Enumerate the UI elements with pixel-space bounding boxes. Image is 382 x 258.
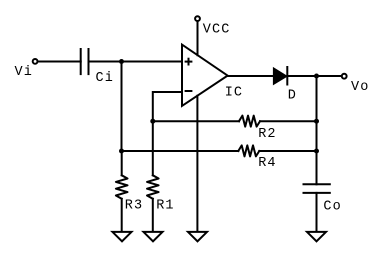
ground under R3 — [113, 232, 132, 241]
resistor R2 — [153, 116, 317, 127]
svg-text:Vi: Vi — [15, 65, 33, 80]
wire output node down right bus — [316, 76, 318, 184]
wire Vi to Ci — [38, 61, 80, 63]
terminal Vi — [33, 59, 38, 64]
svg-text:R1: R1 — [156, 199, 174, 214]
svg-text:R4: R4 — [258, 156, 276, 171]
svg-text:VCC: VCC — [203, 23, 231, 38]
wire op-amp - input to R2 row — [153, 92, 182, 121]
svg-text:IC: IC — [225, 86, 243, 101]
wire VCC to op-amp top — [197, 22, 199, 55]
svg-text:R3: R3 — [125, 199, 143, 214]
wire node A down to R4 row — [121, 62, 123, 152]
resistor R1 — [147, 121, 159, 232]
svg-text:D: D — [288, 88, 297, 103]
ground under op-amp — [188, 232, 207, 241]
wire op-amp power pin to ground — [196, 96, 198, 232]
junction node A — [119, 59, 124, 64]
terminal VCC — [195, 16, 200, 21]
op-amp U1 IC — [182, 45, 228, 106]
junction dot output node — [314, 74, 319, 79]
wire Co to ground — [316, 193, 318, 232]
junction dot R4 row left — [119, 149, 124, 154]
junction dot - input node — [150, 119, 155, 124]
diode D — [274, 67, 287, 85]
terminal Vo — [342, 74, 347, 79]
resistor R3 — [116, 151, 128, 232]
wire Ci to op-amp + input — [89, 61, 183, 63]
svg-text:Vo: Vo — [351, 80, 369, 95]
junction dot right bus R2 row — [314, 119, 319, 124]
ground under R1 — [144, 232, 163, 241]
resistor R4 — [122, 145, 317, 156]
svg-text:Ci: Ci — [96, 71, 114, 86]
capacitor Ci — [81, 49, 89, 74]
svg-text:R2: R2 — [258, 127, 276, 142]
junction dot right bus R4 row — [314, 149, 319, 154]
capacitor Co — [304, 184, 330, 193]
svg-text:Co: Co — [323, 199, 341, 214]
wire op-amp output to diode — [228, 75, 274, 77]
wire diode to Vo — [287, 75, 341, 77]
ground under Co — [307, 232, 326, 241]
